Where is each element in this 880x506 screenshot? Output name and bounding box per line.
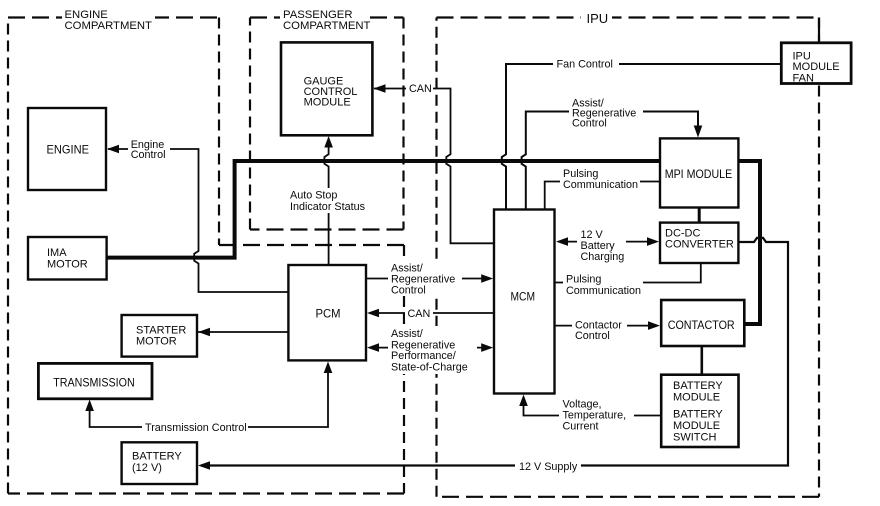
svg-text:MCM: MCM (511, 290, 536, 304)
wire: assist/regenerative control PCM to MCM (366, 278, 489, 280)
svg-text:Communication: Communication (566, 285, 641, 297)
arrow right into DC-DC left (12V charging) (647, 237, 659, 246)
box IMA MOTOR (28, 237, 107, 280)
wire: CAN PCM-MCM row (371, 312, 494, 314)
arrow up into MCM bottom (voltage/temp) (519, 395, 528, 407)
arrow up into PCM bottom (324, 362, 333, 374)
arrow left into BATTERY (12V supply) (198, 461, 210, 470)
thick bus: IMA motor to MPI module (107, 161, 660, 258)
engine compartment dashed border (8, 18, 404, 494)
wire: pulsing communication top (MCM top to MPI left) (545, 182, 660, 210)
arrow right into MCM (assist/regen control) (481, 274, 493, 283)
svg-text:(12 V): (12 V) (132, 462, 162, 474)
wire: engine control (PCM left to ENGINE) with jog over thick bus (108, 149, 289, 292)
box STARTER MOTOR (122, 315, 197, 357)
wire: auto stop indicator status (PCM top to gauge bottom) with jog over bus (324, 141, 328, 265)
svg-text:ENGINE: ENGINE (47, 143, 90, 157)
svg-text:SWITCH: SWITCH (673, 432, 716, 444)
arrow left into MCM right (12V charging) (556, 237, 568, 246)
label: ENGINE COMPARTMENT (62, 8, 155, 32)
svg-text:Control: Control (575, 330, 610, 342)
wire: assist/regenerative control MCM to MPI top, jog over bus (522, 112, 698, 210)
label: Contactor Control (572, 317, 627, 342)
arrow into GAUGE right (CAN) (374, 84, 386, 93)
svg-text:MODULE: MODULE (673, 420, 720, 432)
label: IPU (581, 9, 612, 26)
svg-text:Pulsing: Pulsing (566, 274, 601, 286)
label: 12 V Supply (515, 458, 581, 474)
thick bus: MPI right to contactor (738, 161, 760, 324)
box TRANSMISSION (38, 363, 152, 398)
svg-text:Transmission Control: Transmission Control (145, 422, 247, 434)
arrow into STARTER MOTOR (198, 328, 210, 337)
arrow right into CONTACTOR left (648, 321, 660, 330)
svg-text:CAN: CAN (409, 83, 432, 95)
arrow up into TRANSMISSION (85, 400, 94, 412)
wire: starter motor control (198, 331, 289, 333)
svg-text:Control: Control (572, 118, 607, 130)
label: Engine Control (128, 138, 170, 161)
label: Assist/Regenerative Control (to MPI) (569, 95, 643, 130)
box IPU MODULE FAN (781, 43, 851, 85)
box PCM (288, 265, 366, 360)
label: Transmission Control (142, 420, 248, 435)
arrow up into GAUGE bottom (324, 136, 333, 148)
svg-text:MPI MODULE: MPI MODULE (665, 167, 733, 181)
label: 12 V Battery Charging (577, 227, 626, 263)
box ENGINE (28, 108, 106, 190)
IPU dashed border (437, 18, 820, 497)
svg-text:MODULE: MODULE (793, 61, 840, 73)
svg-text:Indicator Status: Indicator Status (290, 201, 366, 213)
svg-text:BATTERY: BATTERY (132, 451, 182, 463)
arrow into ENGINE (107, 145, 119, 154)
svg-text:Charging: Charging (581, 251, 625, 263)
svg-text:PCM: PCM (316, 307, 341, 321)
svg-text:TRANSMISSION: TRANSMISSION (53, 375, 135, 389)
arrow left into PCM (CAN) (367, 309, 379, 318)
wire: assist/regenerative performance/state-of-charge row (371, 347, 489, 349)
box MPI MODULE (660, 138, 738, 207)
connector: MPI to DC-DC (698, 208, 701, 223)
arrow left into PCM (assist perf) (367, 343, 379, 352)
svg-text:CONVERTER: CONVERTER (665, 239, 734, 251)
svg-text:IPU: IPU (587, 11, 609, 26)
svg-text:Control: Control (391, 285, 426, 297)
svg-text:Fan Control: Fan Control (557, 59, 613, 71)
label: Assist/Regenerative Control (PCM-MCM) (388, 261, 462, 297)
label: Pulsing Communication (top) (560, 166, 640, 191)
box CONTACTOR (661, 300, 744, 346)
svg-text:COMPARTMENT: COMPARTMENT (283, 20, 371, 32)
box BATTERY (12 V) (122, 442, 197, 484)
svg-text:CONTACTOR: CONTACTOR (668, 318, 735, 332)
arrow right into MCM (assist perf) (481, 343, 493, 352)
svg-text:State-of-Charge: State-of-Charge (391, 362, 468, 374)
svg-text:MOTOR: MOTOR (47, 259, 88, 271)
label: Fan Control (553, 57, 619, 72)
svg-text:Auto Stop: Auto Stop (290, 190, 337, 202)
wire: transmission control (90, 366, 328, 427)
arrow down into MPI top (694, 126, 703, 138)
svg-text:IMA: IMA (47, 247, 67, 259)
svg-text:COMPARTMENT: COMPARTMENT (65, 20, 153, 32)
label: Assist/Regenerative Performance/State-of-Charge (388, 326, 477, 374)
svg-text:Communication: Communication (563, 179, 638, 191)
svg-text:BATTERY: BATTERY (673, 409, 723, 421)
label: PASSENGER COMPARTMENT (280, 8, 371, 32)
label: CAN (PCM) (405, 306, 433, 321)
svg-text:Performance/: Performance/ (391, 350, 456, 362)
svg-text:FAN: FAN (793, 73, 814, 85)
svg-text:Current: Current (563, 421, 599, 433)
box MCM (494, 210, 555, 394)
wire: CAN gauge to MCM with jog over bus (374, 89, 494, 244)
wire: 12V supply (DC-DC right, down, across to 12V battery) with jog over thick riser (201, 238, 788, 466)
box BATTERY MODULE / BATTERY MODULE SWITCH (661, 375, 738, 447)
wire: contactor control (555, 325, 658, 327)
passenger compartment dashed border (250, 18, 404, 230)
label: CAN (gauge) (406, 81, 433, 96)
svg-text:Control: Control (131, 149, 166, 161)
svg-text:MOTOR: MOTOR (136, 336, 177, 348)
wire: 12V battery charging (MCM right to DC-DC left) (558, 241, 656, 243)
svg-text:CAN: CAN (408, 308, 431, 320)
svg-text:MODULE: MODULE (673, 392, 720, 404)
wire: fan control (MCM top to IPU module fan) with jog over bus (502, 64, 782, 210)
svg-text:12 V Supply: 12 V Supply (519, 461, 578, 473)
svg-text:BATTERY: BATTERY (673, 380, 723, 392)
label: Pulsing Communication (bottom) (563, 272, 643, 297)
label: Voltage, Temperature, Current (559, 397, 634, 433)
label: Auto Stop Indicator Status (287, 188, 368, 213)
box DC-DC CONVERTER (660, 223, 738, 263)
wire: voltage temperature current (battery module to MCM bottom) (524, 399, 662, 416)
arrowheads (85, 84, 702, 470)
wire: pulsing communication bottom (MCM right to DC-DC bottom) (555, 264, 701, 283)
connector: contactor to battery module (700, 346, 703, 375)
svg-text:MODULE: MODULE (304, 97, 351, 109)
svg-text:Assist/: Assist/ (391, 328, 423, 340)
box GAUGE CONTROL MODULE (281, 42, 372, 135)
